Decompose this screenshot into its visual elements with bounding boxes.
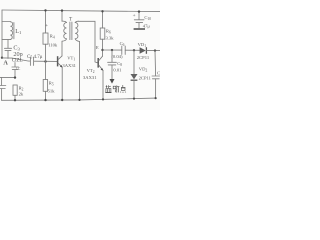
svg-text:C8: C8 — [117, 61, 122, 67]
svg-text:0.01: 0.01 — [113, 68, 122, 73]
svg-text:L1: L1 — [15, 28, 22, 35]
svg-text:VD2: VD2 — [139, 67, 148, 73]
svg-text:3AX31: 3AX31 — [83, 75, 97, 80]
svg-text:E: E — [96, 45, 99, 50]
svg-text:2k: 2k — [19, 92, 24, 97]
svg-text:R5: R5 — [49, 81, 54, 87]
svg-text:C5 4.7μ: C5 4.7μ — [27, 55, 43, 60]
svg-text:R4: R4 — [50, 34, 55, 40]
svg-text:51k: 51k — [48, 89, 56, 94]
svg-text:47μ: 47μ — [143, 24, 151, 29]
svg-text:(0.04): (0.04) — [111, 54, 123, 59]
svg-text:R6: R6 — [106, 29, 111, 35]
svg-text:2CP11: 2CP11 — [139, 76, 152, 81]
svg-text:+: + — [133, 13, 136, 19]
svg-text:3.3k: 3.3k — [106, 36, 115, 41]
svg-text:VT2: VT2 — [87, 68, 95, 74]
svg-text:VT1: VT1 — [67, 56, 75, 62]
svg-text:R2: R2 — [19, 86, 24, 92]
svg-text:C10: C10 — [144, 15, 151, 21]
svg-text:C6: C6 — [120, 41, 125, 47]
svg-text:3AX31: 3AX31 — [62, 63, 76, 68]
svg-text:+: + — [45, 23, 48, 29]
svg-text:A: A — [3, 60, 8, 67]
svg-text:C: C — [157, 71, 160, 76]
svg-text:2CP11: 2CP11 — [137, 55, 150, 60]
svg-text:110k: 110k — [48, 43, 58, 48]
svg-text:20p: 20p — [13, 51, 22, 58]
svg-text:ClZL: ClZL — [12, 59, 23, 64]
svg-text:VD1: VD1 — [138, 42, 147, 48]
